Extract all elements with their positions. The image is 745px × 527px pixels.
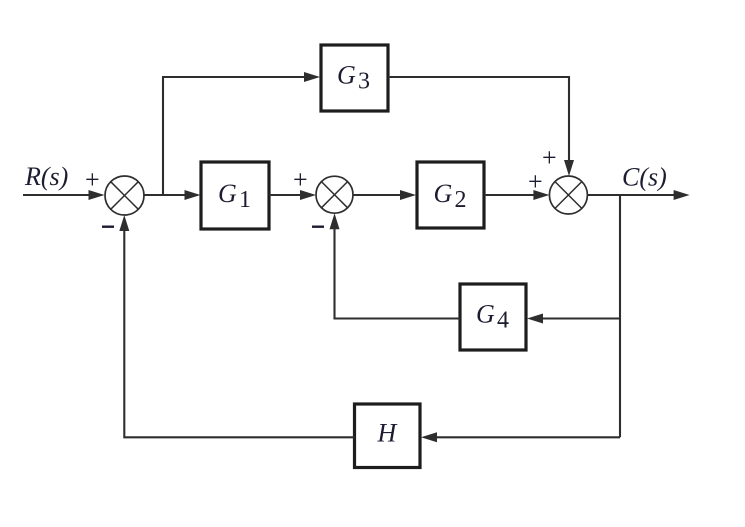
summing junction S1 (105, 176, 144, 215)
wire summer S1 to block G1 (through takeoff node) (144, 190, 201, 200)
wire feedback to block H (421, 432, 620, 442)
wire branch to block G3 (162, 72, 320, 82)
svg-text:+: + (542, 143, 557, 172)
wire summer S2 to block G2 (353, 190, 416, 200)
block H (355, 404, 421, 468)
svg-text:1: 1 (239, 187, 251, 213)
svg-text:+: + (85, 165, 100, 194)
svg-text:G: G (337, 61, 356, 90)
node R(s) input label (24, 162, 68, 191)
wire output takeoff down to H level (619, 194, 621, 437)
wire takeoff node up to G3 branch (162, 77, 164, 196)
node C(s) output label (622, 163, 667, 192)
wire G4 output to summer S2 (left then up) (330, 213, 461, 318)
block G3 (321, 45, 388, 111)
summing junction S2 (316, 176, 353, 213)
wire summer S3 to output C(s) (587, 190, 689, 200)
minus sign at summer S1 (102, 226, 114, 228)
block G4 (460, 284, 526, 350)
plus sign at summer S1 (85, 165, 100, 194)
plus sign left of summer S3 (528, 167, 543, 196)
svg-text:G: G (476, 300, 495, 329)
wire H output to summer S1 (left then up) (119, 215, 354, 437)
plus sign at summer S2 (293, 165, 308, 194)
svg-text:H: H (377, 419, 398, 448)
wire input R(s) to summer S1 (23, 190, 105, 200)
svg-text:R(s): R(s) (24, 162, 68, 191)
block G2 (417, 162, 484, 228)
svg-text:3: 3 (358, 69, 370, 95)
svg-text:G: G (434, 179, 453, 208)
svg-text:2: 2 (455, 187, 467, 213)
block G1 (201, 162, 269, 229)
svg-text:+: + (293, 165, 308, 194)
svg-text:C(s): C(s) (622, 163, 667, 192)
wire feedback branch to block G4 (527, 314, 620, 324)
plus sign above summer S3 (542, 143, 557, 172)
summing junction S3 (549, 176, 587, 214)
wire G3 output to summer S3 (right then down) (388, 77, 574, 176)
svg-text:G: G (218, 179, 237, 208)
wire G2 output to summer S3 (484, 190, 549, 200)
minus sign at summer S2 (312, 226, 324, 228)
wire G1 output to summer S2 (269, 190, 316, 200)
svg-text:4: 4 (497, 308, 509, 334)
